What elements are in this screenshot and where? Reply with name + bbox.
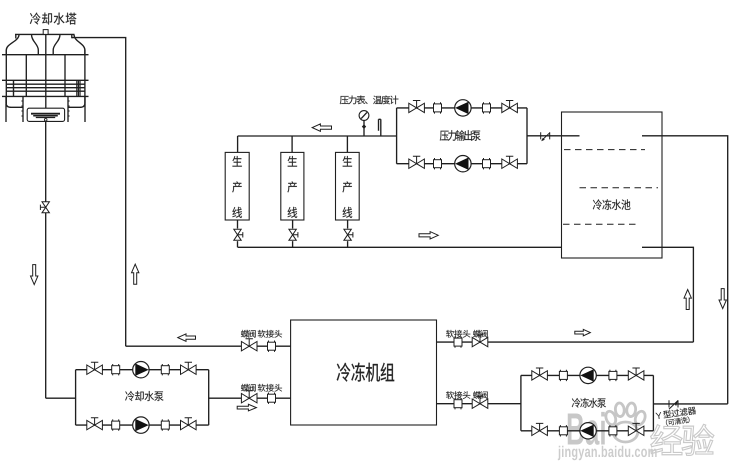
wire tower top to downcomer bbox=[72, 38, 126, 347]
valve cooling top right bbox=[181, 362, 197, 374]
label 蝶阀 lower-left bbox=[241, 384, 256, 392]
wire chiller to chilled pump group bbox=[437, 403, 521, 405]
valve chilled bottom left bbox=[532, 423, 548, 435]
flex joint pressure top right bbox=[483, 102, 491, 113]
production line box 3 生产线 bbox=[336, 152, 360, 220]
pump chilled bottom bbox=[580, 423, 596, 439]
label 冷却水泵 bbox=[125, 391, 163, 401]
valve butterfly lower-left bbox=[241, 391, 257, 403]
valve pressure top left bbox=[409, 101, 425, 113]
thermometer bbox=[379, 119, 381, 136]
arrow down beside drain pipe bbox=[31, 265, 38, 285]
flex joint lower-left bbox=[268, 393, 276, 404]
chilled pump group frame bbox=[521, 375, 654, 430]
valve chilled bottom right bbox=[628, 423, 644, 435]
arrow left on chiller-tower line bbox=[178, 334, 196, 341]
valve pressure bottom left bbox=[409, 156, 425, 168]
valve cooling bottom right bbox=[181, 418, 197, 430]
wire tower basin drain bbox=[45, 121, 47, 398]
wire production drain stub 2 bbox=[292, 220, 294, 247]
wire chiller to tank return bbox=[437, 341, 694, 343]
chiller box 冷冻机组 bbox=[291, 320, 437, 425]
pressure pump group frame bbox=[397, 108, 527, 164]
flex joint chilled top left bbox=[559, 370, 567, 381]
pump pressure bottom bbox=[455, 156, 471, 172]
arrow up beside chiller return bbox=[684, 290, 691, 310]
watermark url bbox=[558, 446, 657, 461]
flex joint cooling top right bbox=[161, 364, 169, 375]
production line box 2 生产线 bbox=[281, 152, 304, 220]
cooling tower label 冷却水塔 bbox=[30, 13, 76, 25]
flex joint pressure top left bbox=[434, 102, 442, 113]
label 蝶阀 lower-right bbox=[473, 391, 488, 399]
valve cooling bottom left bbox=[87, 418, 103, 430]
valve chilled top right bbox=[628, 368, 644, 380]
wire drain to cooling pump group bbox=[46, 397, 76, 399]
flex joint chilled bottom right bbox=[609, 425, 617, 436]
arrow left on top header bbox=[312, 124, 331, 131]
note Y-strainer text bbox=[655, 406, 697, 427]
wire cooling pump group to chiller bbox=[209, 397, 291, 399]
label 蝶阀 upper-left bbox=[241, 330, 256, 338]
cooling tower bbox=[2, 30, 89, 122]
flex joint cooling bottom right bbox=[161, 419, 169, 430]
flex joint lower-right bbox=[454, 398, 462, 409]
valve butterfly upper-left bbox=[241, 339, 257, 351]
flex joint chilled top right bbox=[609, 370, 617, 381]
label 软接头 upper-left bbox=[258, 330, 282, 338]
arrow right on bottom header bbox=[419, 232, 438, 239]
arrow right small below valve bbox=[237, 404, 256, 411]
strainer on tank inlet bbox=[541, 132, 550, 141]
arrow up beside riser to tower bbox=[132, 264, 139, 284]
label 蝶阀 upper-right bbox=[473, 330, 488, 338]
valve cooling top left bbox=[87, 362, 103, 374]
production line box 1 生产线 bbox=[225, 152, 249, 220]
pump cooling top bbox=[133, 362, 149, 378]
pump pressure top bbox=[455, 100, 471, 116]
strainer on pump suction bbox=[669, 400, 678, 409]
watermark jingyan outline characters bbox=[651, 424, 714, 455]
gauge label 压力表、温度计 bbox=[340, 95, 399, 104]
flex joint chilled bottom left bbox=[559, 425, 567, 436]
wire chiller to tower riser bbox=[126, 345, 291, 347]
wire top main header bbox=[238, 135, 397, 137]
valve tower drain bbox=[40, 202, 49, 213]
wire chilled pump group to right main bbox=[653, 403, 727, 405]
cooling pump group frame bbox=[76, 370, 209, 425]
label 冷冻水泵 bbox=[572, 398, 606, 408]
flex joint cooling top left bbox=[112, 364, 120, 375]
watermark paw logo bbox=[604, 403, 647, 442]
wire production drain stub 1 bbox=[237, 220, 239, 247]
label 软接头 lower-left bbox=[258, 384, 282, 392]
flex joint upper-right bbox=[454, 336, 462, 347]
wire tank top outlet right bbox=[642, 136, 728, 404]
label 软接头 lower-right bbox=[446, 391, 470, 399]
pump cooling bottom bbox=[133, 417, 149, 433]
valve production drain 1 bbox=[234, 229, 243, 240]
valve pressure bottom right bbox=[502, 156, 518, 168]
tank 冷冻水池 bbox=[562, 112, 663, 258]
flex joint upper-left bbox=[268, 341, 276, 352]
watermark baidu text bbox=[568, 412, 605, 445]
flex joint pressure bottom left bbox=[434, 158, 442, 169]
arrow right on chiller-tank line bbox=[575, 329, 591, 335]
pump chilled top bbox=[580, 367, 596, 383]
flex joint pressure bottom right bbox=[483, 158, 491, 169]
pressure gauge bbox=[359, 111, 369, 136]
valve pressure top right bbox=[502, 101, 518, 113]
arrow down beside right main bbox=[719, 289, 726, 309]
flex joint cooling bottom left bbox=[112, 419, 120, 430]
valve production drain 3 bbox=[344, 229, 353, 240]
wire production header stubs bbox=[238, 136, 348, 152]
valve production drain 2 bbox=[289, 229, 298, 240]
wire tank bottom outlet right bbox=[642, 247, 693, 342]
label 压力输出泵 bbox=[440, 130, 481, 141]
wire pump group to tank bbox=[527, 135, 562, 137]
valve butterfly upper-right bbox=[472, 335, 488, 347]
valve butterfly lower-right bbox=[472, 396, 488, 408]
wire bottom header to tank bbox=[238, 246, 580, 248]
valve chilled top left bbox=[532, 368, 548, 380]
wire production drain stub 3 bbox=[347, 220, 349, 247]
label 软接头 upper-right bbox=[446, 330, 470, 338]
